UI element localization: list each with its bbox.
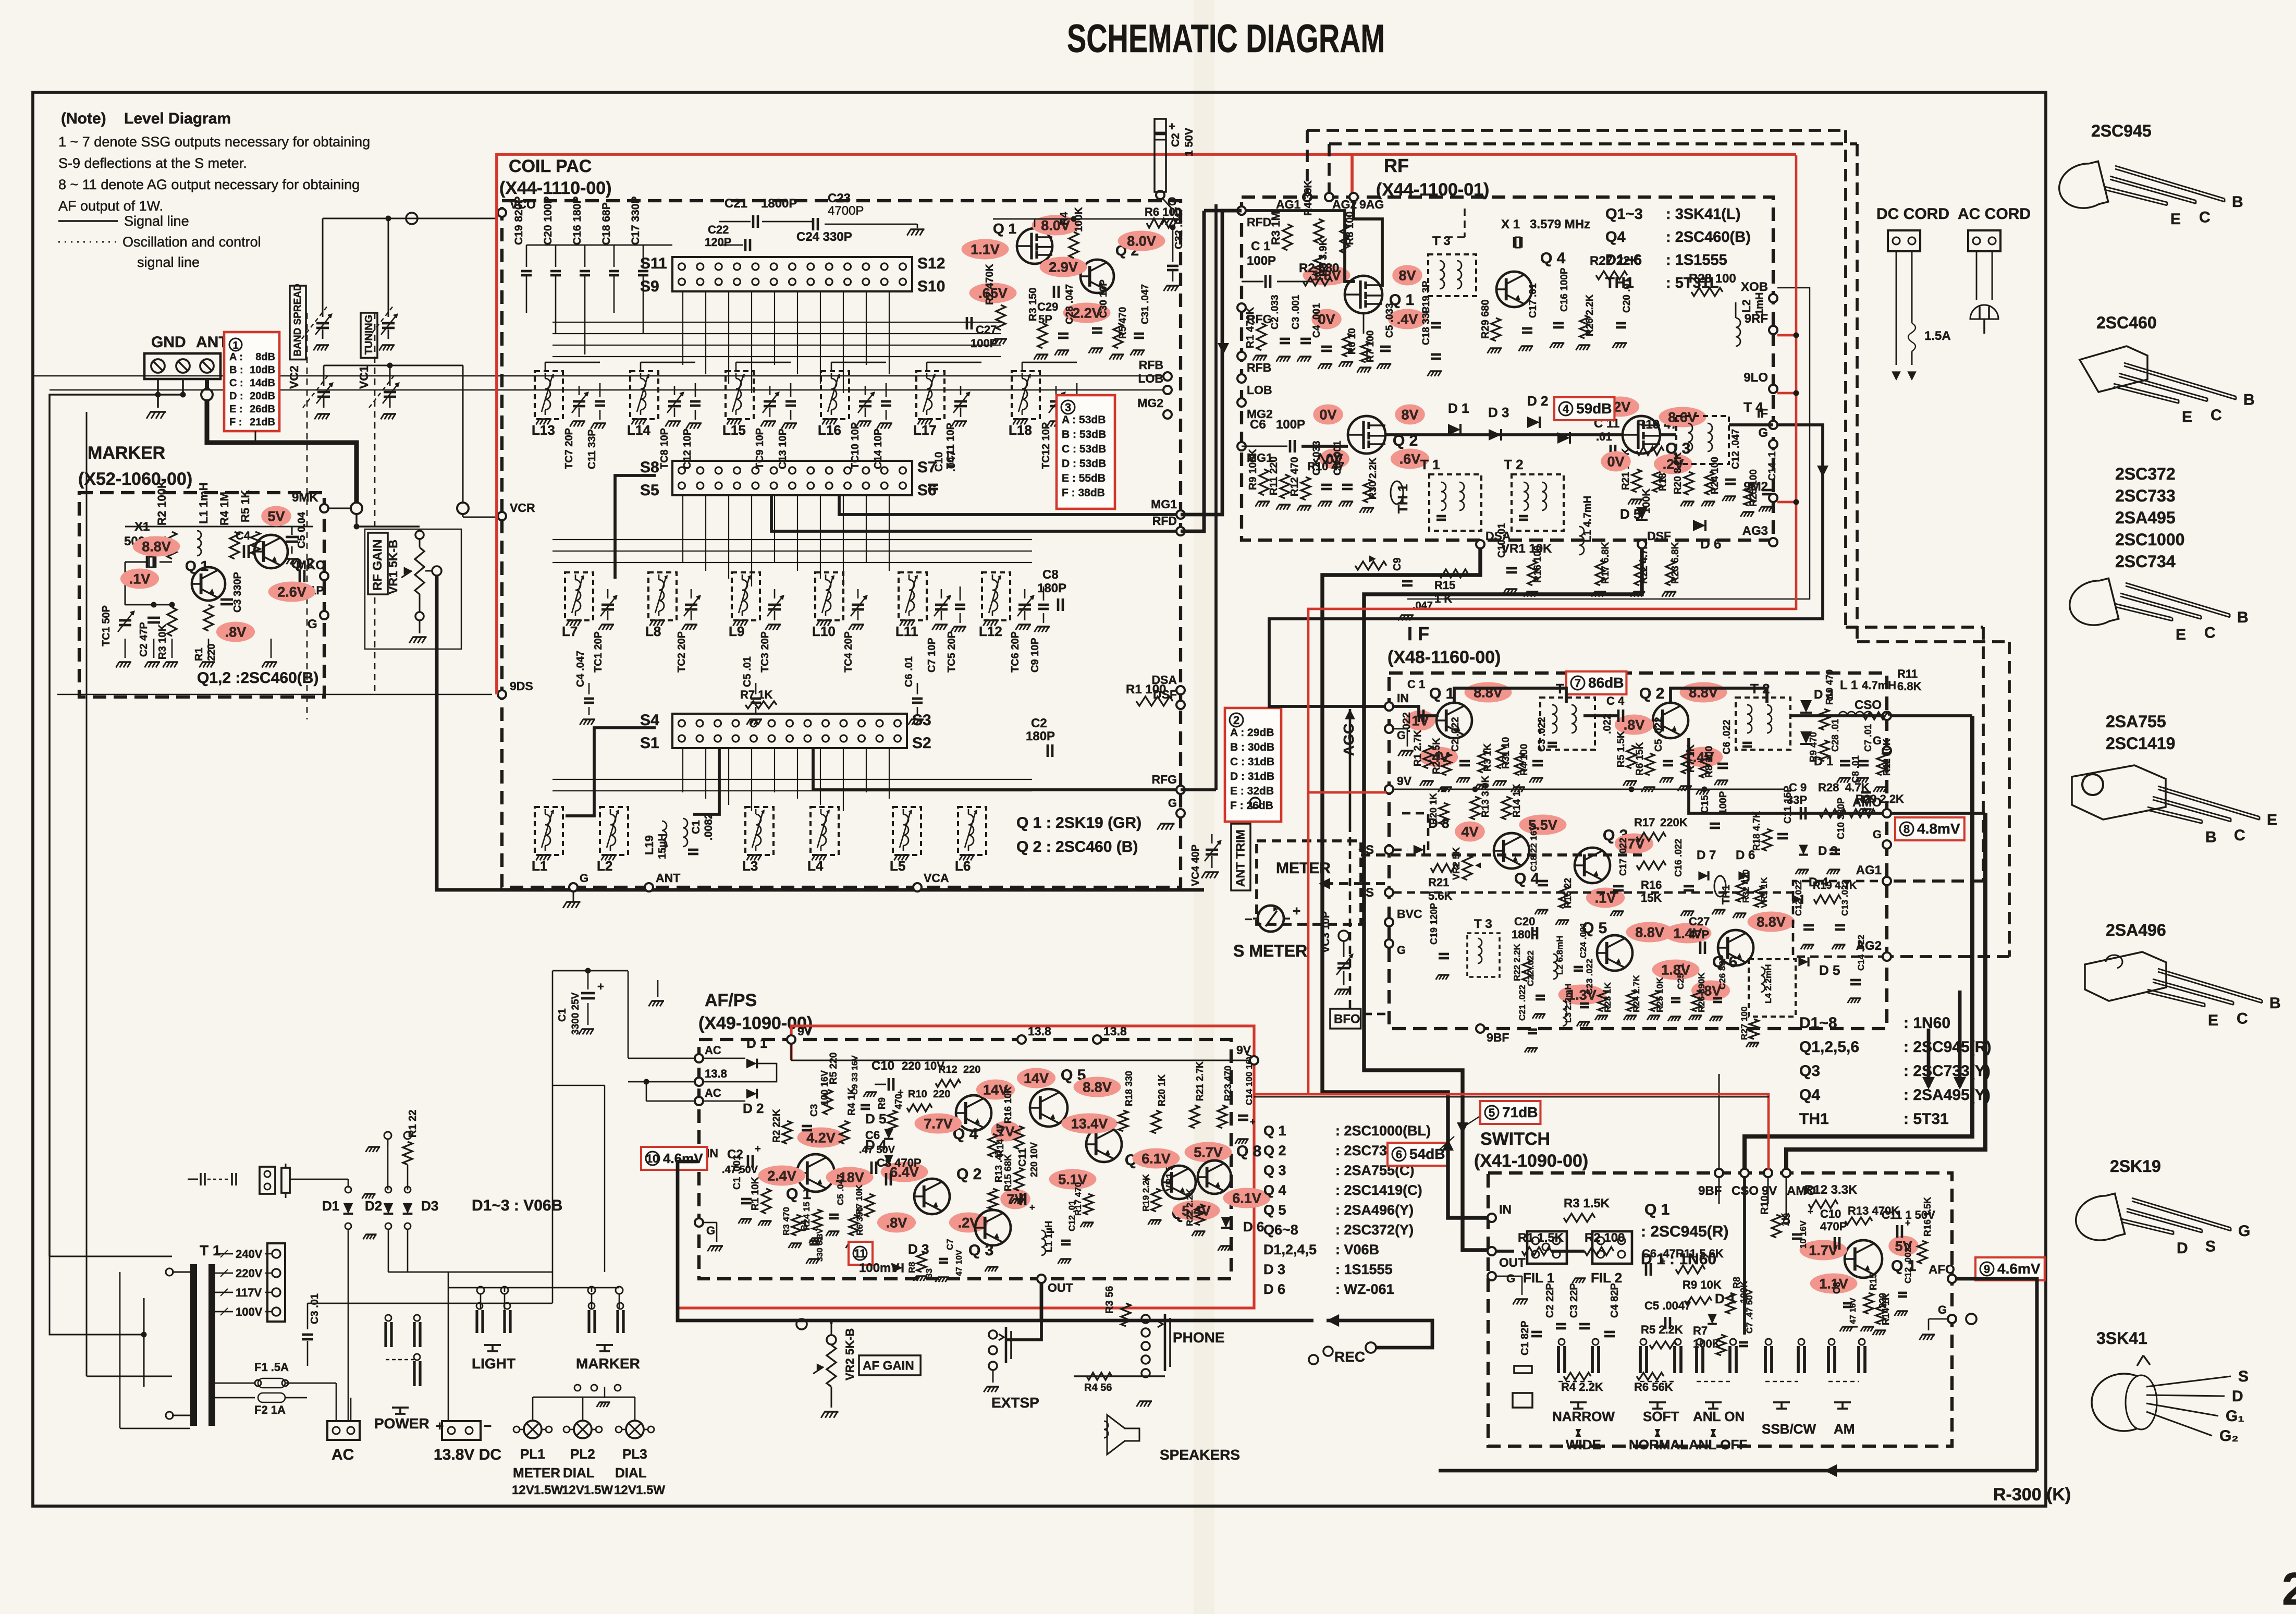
svg-text:.0082: .0082 bbox=[703, 813, 715, 840]
svg-text:C5 .022: C5 .022 bbox=[1653, 717, 1664, 752]
svg-text:(X48-1160-00): (X48-1160-00) bbox=[1388, 647, 1501, 667]
svg-text:C12 .047: C12 .047 bbox=[1730, 429, 1741, 469]
svg-text:S METER: S METER bbox=[1233, 942, 1307, 960]
svg-text:.8V: .8V bbox=[225, 625, 247, 640]
svg-text:10 16V: 10 16V bbox=[1798, 1220, 1808, 1249]
svg-text:C: C bbox=[2211, 407, 2222, 424]
svg-text:L1: L1 bbox=[532, 858, 547, 874]
svg-text:LOB: LOB bbox=[1247, 383, 1272, 397]
svg-text:C24 .001: C24 .001 bbox=[1578, 922, 1588, 958]
svg-text:G: G bbox=[580, 872, 588, 885]
svg-text:R17 6.8K: R17 6.8K bbox=[1600, 542, 1611, 584]
svg-text:R10: R10 bbox=[1759, 1195, 1771, 1215]
svg-text:3: 3 bbox=[1065, 401, 1071, 414]
svg-text:1800P: 1800P bbox=[761, 197, 797, 211]
svg-text:59dB: 59dB bbox=[1576, 400, 1612, 417]
svg-text:C26 33P: C26 33P bbox=[1717, 955, 1727, 989]
svg-text:R2 100K: R2 100K bbox=[155, 480, 168, 525]
svg-text:R10: R10 bbox=[908, 1089, 927, 1100]
svg-text:9BF: 9BF bbox=[1487, 1031, 1509, 1044]
svg-text:1 ~ 7 denote SSG outputs neces: 1 ~ 7 denote SSG outputs necessary for o… bbox=[58, 134, 370, 150]
svg-text:5.7V: 5.7V bbox=[1194, 1145, 1223, 1160]
svg-text:R29 2.2K: R29 2.2K bbox=[1856, 792, 1904, 805]
svg-text:100P: 100P bbox=[1718, 791, 1729, 814]
svg-text:C1 .001: C1 .001 bbox=[732, 1155, 743, 1190]
svg-text:R3 150: R3 150 bbox=[1027, 288, 1039, 322]
svg-text:+: + bbox=[1808, 1206, 1813, 1217]
svg-text:C28 .047: C28 .047 bbox=[1064, 284, 1075, 324]
svg-text:R28 100: R28 100 bbox=[1689, 272, 1736, 286]
svg-text:L4: L4 bbox=[807, 858, 824, 874]
svg-text:S10: S10 bbox=[917, 278, 945, 295]
svg-text:E: E bbox=[2208, 1012, 2218, 1029]
svg-text:BAND SPREAD: BAND SPREAD bbox=[292, 284, 303, 356]
svg-text:G: G bbox=[1873, 734, 1882, 747]
svg-text:C10: C10 bbox=[933, 451, 945, 472]
svg-text:MARKER: MARKER bbox=[88, 443, 165, 463]
svg-text:(X49-1090-00): (X49-1090-00) bbox=[698, 1013, 813, 1033]
svg-text:8V: 8V bbox=[1401, 407, 1418, 423]
svg-text:L17: L17 bbox=[913, 422, 937, 438]
svg-text:G: G bbox=[1168, 797, 1177, 810]
svg-text:AG3: AG3 bbox=[1742, 524, 1768, 538]
svg-text:C4: C4 bbox=[236, 529, 251, 542]
svg-text:R28: R28 bbox=[1818, 781, 1839, 794]
svg-text:3SK41: 3SK41 bbox=[2096, 1329, 2147, 1348]
svg-text:C4 82P: C4 82P bbox=[1609, 1283, 1620, 1318]
svg-text:X 1: X 1 bbox=[1501, 217, 1520, 231]
svg-text:C5 .047: C5 .047 bbox=[836, 1174, 845, 1205]
svg-text:9AG: 9AG bbox=[1359, 198, 1384, 211]
svg-text:4.8mV: 4.8mV bbox=[1917, 821, 1960, 837]
svg-text:TC9 10P: TC9 10P bbox=[754, 428, 766, 469]
svg-text:TC12 10P: TC12 10P bbox=[1040, 422, 1052, 469]
svg-text:F2 1A: F2 1A bbox=[254, 1403, 286, 1416]
svg-text:0V: 0V bbox=[1319, 407, 1336, 423]
svg-text:7.7V: 7.7V bbox=[924, 1116, 953, 1132]
svg-text:TUNING: TUNING bbox=[363, 315, 375, 355]
svg-text:B: B bbox=[2243, 392, 2255, 409]
svg-text:1.7V: 1.7V bbox=[1809, 1243, 1838, 1258]
svg-text:R5 3.9K: R5 3.9K bbox=[1318, 238, 1329, 276]
svg-text:R27 22K: R27 22K bbox=[1590, 254, 1639, 268]
svg-text:L2: L2 bbox=[1740, 299, 1753, 313]
svg-text:9V: 9V bbox=[1236, 1043, 1251, 1057]
svg-text:R3 56: R3 56 bbox=[1104, 1286, 1115, 1314]
svg-text:C13 10P: C13 10P bbox=[777, 429, 789, 469]
svg-text:C9: C9 bbox=[1392, 557, 1403, 571]
svg-text:R30 2.2K: R30 2.2K bbox=[1368, 457, 1379, 499]
svg-text:R5 470: R5 470 bbox=[1118, 307, 1128, 339]
svg-text:S4: S4 bbox=[640, 712, 659, 729]
svg-text:Q3: Q3 bbox=[1799, 1062, 1820, 1080]
svg-text:RFB: RFB bbox=[1139, 358, 1163, 372]
svg-text:C3: C3 bbox=[809, 1104, 820, 1117]
svg-text:C7 10P: C7 10P bbox=[926, 638, 938, 672]
svg-text:VCR: VCR bbox=[510, 501, 535, 515]
svg-text:L3: L3 bbox=[742, 858, 758, 874]
svg-text:13.8V DC: 13.8V DC bbox=[434, 1446, 501, 1463]
svg-text:10: 10 bbox=[646, 1152, 659, 1165]
svg-text:I F: I F bbox=[1407, 623, 1429, 644]
svg-text:R9 470: R9 470 bbox=[1808, 732, 1819, 762]
svg-text:C23: C23 bbox=[828, 191, 851, 205]
svg-text:C19 120P: C19 120P bbox=[1429, 903, 1439, 945]
svg-text:7: 7 bbox=[1575, 677, 1581, 690]
svg-text:R3 470: R3 470 bbox=[781, 1207, 791, 1236]
svg-text:1.1V: 1.1V bbox=[971, 242, 1000, 258]
svg-text:54dB: 54dB bbox=[1409, 1146, 1445, 1162]
svg-text:C: C bbox=[2234, 827, 2245, 844]
svg-text:G: G bbox=[1506, 1272, 1515, 1285]
svg-text:S: S bbox=[2205, 1238, 2216, 1255]
svg-text:2SC734: 2SC734 bbox=[2115, 552, 2176, 571]
svg-text:2SC1000: 2SC1000 bbox=[2115, 530, 2184, 549]
svg-text:TH1: TH1 bbox=[1799, 1110, 1829, 1128]
svg-text:AFO: AFO bbox=[1929, 1263, 1955, 1277]
svg-text:R22 2.2K: R22 2.2K bbox=[1512, 943, 1522, 981]
svg-text:R12 3.3K: R12 3.3K bbox=[1804, 1183, 1858, 1197]
svg-text:DSF: DSF bbox=[1647, 529, 1671, 543]
svg-text:13.4V: 13.4V bbox=[1071, 1116, 1108, 1132]
svg-text:.8V: .8V bbox=[1624, 717, 1645, 733]
svg-text:VC4 40P: VC4 40P bbox=[1190, 845, 1201, 886]
svg-text:signal line: signal line bbox=[137, 254, 200, 270]
svg-text:R20 8.2K: R20 8.2K bbox=[1673, 452, 1684, 494]
svg-text:R15: R15 bbox=[1868, 1273, 1878, 1290]
svg-text:C 4: C 4 bbox=[1606, 694, 1625, 707]
svg-text:Q 2: Q 2 bbox=[1263, 1143, 1286, 1158]
svg-text:R18 4.7K: R18 4.7K bbox=[1751, 811, 1762, 851]
svg-text:F : 38dB: F : 38dB bbox=[1062, 487, 1105, 499]
svg-text:12V: 12V bbox=[614, 1483, 636, 1497]
svg-text:C8: C8 bbox=[1832, 1282, 1842, 1294]
svg-text:L2 6.8mH: L2 6.8mH bbox=[1555, 935, 1565, 975]
svg-text:TH 1: TH 1 bbox=[1395, 484, 1410, 513]
svg-text:R7 1K: R7 1K bbox=[740, 688, 772, 701]
svg-text:: WZ-061: : WZ-061 bbox=[1335, 1281, 1394, 1297]
svg-text:R27 100: R27 100 bbox=[1739, 1007, 1749, 1040]
svg-text:T 2: T 2 bbox=[1504, 457, 1524, 472]
svg-text:G: G bbox=[308, 617, 317, 631]
svg-text:R13 3.9K: R13 3.9K bbox=[1480, 775, 1491, 817]
svg-text:C4 .001: C4 .001 bbox=[1311, 303, 1322, 338]
svg-text:5V: 5V bbox=[267, 509, 285, 524]
svg-text:R7: R7 bbox=[1693, 1324, 1708, 1337]
svg-text:TC6 20P: TC6 20P bbox=[1010, 631, 1021, 672]
svg-text:C6: C6 bbox=[1250, 418, 1266, 432]
svg-text:C3 22P: C3 22P bbox=[1568, 1283, 1580, 1318]
svg-text:9MK: 9MK bbox=[292, 491, 318, 505]
svg-text:SOFT: SOFT bbox=[1643, 1409, 1679, 1424]
svg-text:AC: AC bbox=[705, 1086, 721, 1099]
svg-text:C11 33P: C11 33P bbox=[586, 429, 598, 469]
svg-text:R6 15K: R6 15K bbox=[1635, 742, 1646, 776]
svg-text:D 3: D 3 bbox=[1263, 1262, 1285, 1277]
svg-text:METER: METER bbox=[513, 1465, 560, 1481]
svg-text:D 3: D 3 bbox=[1488, 405, 1509, 420]
svg-text:F :: F : bbox=[229, 417, 242, 428]
svg-text:C5 .033: C5 .033 bbox=[1384, 303, 1395, 338]
svg-text:R5 2.2K: R5 2.2K bbox=[1641, 1323, 1683, 1336]
svg-text:2.9V: 2.9V bbox=[1049, 260, 1078, 275]
svg-text:R16: R16 bbox=[1641, 878, 1662, 891]
svg-text:L9: L9 bbox=[729, 623, 744, 639]
svg-text:+: + bbox=[1905, 1218, 1911, 1228]
svg-text:RFG: RFG bbox=[1151, 773, 1177, 786]
svg-text:.1V: .1V bbox=[129, 571, 151, 587]
svg-text:B: B bbox=[2269, 995, 2281, 1012]
svg-text:R15 68K: R15 68K bbox=[1003, 1154, 1013, 1191]
svg-text:SCHEMATIC DIAGRAM: SCHEMATIC DIAGRAM bbox=[1067, 17, 1385, 61]
svg-text:TC1 50P: TC1 50P bbox=[101, 605, 112, 646]
svg-text:R2 22K: R2 22K bbox=[771, 1109, 782, 1143]
svg-text:ANT: ANT bbox=[656, 871, 680, 885]
svg-text:PL3: PL3 bbox=[622, 1446, 647, 1462]
svg-text:IN: IN bbox=[1397, 691, 1409, 705]
svg-text:C5 .01: C5 .01 bbox=[742, 656, 753, 687]
svg-text:R10 470: R10 470 bbox=[1824, 669, 1835, 705]
svg-text:1mH: 1mH bbox=[1754, 292, 1765, 315]
svg-text:R4 1M: R4 1M bbox=[218, 492, 231, 525]
svg-text:470P: 470P bbox=[1820, 1220, 1847, 1233]
svg-text:SWITCH: SWITCH bbox=[1480, 1129, 1550, 1149]
svg-text:1: 1 bbox=[232, 340, 238, 351]
svg-text:Q 1 : 2SK19 (GR): Q 1 : 2SK19 (GR) bbox=[1016, 814, 1141, 832]
svg-text:C8 470P: C8 470P bbox=[877, 1156, 922, 1169]
svg-text:G: G bbox=[1758, 426, 1768, 440]
svg-text:Q 4: Q 4 bbox=[1514, 870, 1540, 887]
svg-text:NORMAL: NORMAL bbox=[1629, 1437, 1688, 1452]
svg-text:4: 4 bbox=[1563, 402, 1569, 415]
svg-text:8.8V: 8.8V bbox=[1635, 925, 1664, 940]
svg-text:RF: RF bbox=[1384, 155, 1409, 176]
svg-text:C1: C1 bbox=[690, 820, 702, 834]
svg-text:240V: 240V bbox=[236, 1248, 263, 1261]
svg-text:C6 .47: C6 .47 bbox=[1642, 1247, 1676, 1260]
svg-text:R24 100: R24 100 bbox=[1710, 457, 1721, 494]
svg-text:C7: C7 bbox=[945, 1239, 955, 1250]
svg-text:B : 53dB: B : 53dB bbox=[1062, 429, 1106, 441]
svg-text:.047: .047 bbox=[946, 450, 957, 472]
svg-text:MG1: MG1 bbox=[1151, 497, 1177, 511]
svg-text:MG2: MG2 bbox=[1137, 396, 1163, 410]
svg-text:C5 .0047: C5 .0047 bbox=[1644, 1299, 1691, 1312]
svg-text:R26 390K: R26 390K bbox=[1697, 972, 1706, 1012]
svg-text:8.8V: 8.8V bbox=[1083, 1080, 1112, 1095]
svg-text:L10: L10 bbox=[812, 623, 836, 639]
svg-text:R29 680: R29 680 bbox=[1480, 299, 1491, 339]
svg-text:C5 0.04: C5 0.04 bbox=[296, 511, 308, 548]
svg-text:8dB: 8dB bbox=[255, 351, 275, 363]
svg-text:C1 82P: C1 82P bbox=[1519, 1320, 1531, 1355]
svg-text:D :: D : bbox=[229, 390, 243, 402]
svg-text:L18: L18 bbox=[1009, 422, 1032, 438]
svg-text:C18 68P: C18 68P bbox=[600, 202, 612, 245]
svg-text:D1,2,4,5: D1,2,4,5 bbox=[1263, 1242, 1317, 1257]
svg-text:71dB: 71dB bbox=[1502, 1104, 1538, 1120]
svg-text:S2: S2 bbox=[912, 735, 931, 752]
svg-text:C20 .01: C20 .01 bbox=[1622, 278, 1632, 313]
svg-text:C3 .01: C3 .01 bbox=[309, 1293, 321, 1324]
svg-text:2SC1419: 2SC1419 bbox=[2106, 734, 2175, 753]
svg-text:R7 100: R7 100 bbox=[1365, 331, 1376, 362]
svg-text:TH1: TH1 bbox=[1721, 885, 1732, 904]
svg-text:C: C bbox=[2199, 209, 2211, 226]
svg-text:1.5W: 1.5W bbox=[584, 1483, 613, 1497]
svg-text:R8: R8 bbox=[907, 1262, 917, 1273]
svg-text:R5 1K: R5 1K bbox=[239, 490, 252, 522]
svg-text:S5: S5 bbox=[640, 482, 659, 499]
svg-text:PHONE: PHONE bbox=[1173, 1329, 1225, 1346]
svg-text:8.6V: 8.6V bbox=[1668, 410, 1697, 425]
svg-text:L4 2.2mH: L4 2.2mH bbox=[1763, 964, 1773, 1004]
svg-text:+: + bbox=[436, 1418, 444, 1434]
svg-text:.6V: .6V bbox=[1399, 451, 1421, 467]
svg-text:D 2: D 2 bbox=[743, 1101, 764, 1116]
svg-text:2: 2 bbox=[1233, 714, 1239, 727]
svg-text:C8 .01: C8 .01 bbox=[1850, 755, 1861, 783]
svg-text:Q 1: Q 1 bbox=[1263, 1123, 1286, 1139]
svg-text:L8: L8 bbox=[645, 623, 661, 639]
svg-text:12V: 12V bbox=[562, 1483, 584, 1497]
svg-text:47P: 47P bbox=[1689, 928, 1709, 941]
svg-text:VC1: VC1 bbox=[357, 365, 371, 389]
svg-text:R6 10: R6 10 bbox=[1347, 328, 1358, 354]
svg-text:E: E bbox=[2176, 626, 2186, 643]
svg-text:120P: 120P bbox=[705, 236, 731, 249]
svg-text:Q 1: Q 1 bbox=[1644, 1201, 1669, 1218]
svg-text:C28 .01: C28 .01 bbox=[1830, 719, 1840, 752]
svg-text:4.7mH: 4.7mH bbox=[1862, 679, 1896, 692]
svg-text:R21 2.7K: R21 2.7K bbox=[1195, 1061, 1205, 1101]
svg-text:D 4: D 4 bbox=[865, 1137, 887, 1153]
svg-text:220V: 220V bbox=[236, 1267, 263, 1280]
svg-text:TC5 20P: TC5 20P bbox=[946, 631, 957, 672]
svg-text:VCA: VCA bbox=[924, 871, 949, 885]
svg-text:C27: C27 bbox=[976, 323, 997, 336]
svg-text:C22 .022: C22 .022 bbox=[1526, 950, 1536, 986]
svg-text:.022: .022 bbox=[1401, 712, 1413, 732]
svg-text:C 9: C 9 bbox=[1789, 781, 1807, 794]
svg-text:LIGHT: LIGHT bbox=[472, 1355, 515, 1372]
svg-text:R6 56K: R6 56K bbox=[1634, 1380, 1673, 1393]
svg-text:RFB: RFB bbox=[1247, 361, 1271, 374]
svg-text:TC1 20P: TC1 20P bbox=[593, 631, 604, 672]
svg-text:LOB: LOB bbox=[1138, 372, 1163, 385]
svg-text:.4V: .4V bbox=[1397, 312, 1418, 327]
svg-text:WIDE: WIDE bbox=[1566, 1437, 1601, 1452]
svg-text:220: 220 bbox=[963, 1064, 980, 1075]
svg-text:L2: L2 bbox=[597, 858, 612, 874]
svg-text:AC: AC bbox=[331, 1446, 354, 1463]
svg-text:C30 10P: C30 10P bbox=[1098, 279, 1109, 318]
svg-text:C3 .022: C3 .022 bbox=[1537, 717, 1548, 752]
svg-text:R25 100: R25 100 bbox=[1748, 469, 1759, 507]
svg-text:S1: S1 bbox=[640, 735, 659, 752]
svg-text:C11: C11 bbox=[1017, 1148, 1028, 1167]
svg-text:L1 1μH: L1 1μH bbox=[1043, 1221, 1054, 1252]
svg-text:R11 5.6K: R11 5.6K bbox=[1676, 1247, 1724, 1260]
svg-text:C : 31dB: C : 31dB bbox=[1230, 756, 1274, 768]
svg-text:X1: X1 bbox=[134, 520, 150, 534]
svg-text:VR2 5K-B: VR2 5K-B bbox=[843, 1328, 856, 1380]
svg-text:R4 56: R4 56 bbox=[1084, 1382, 1112, 1393]
svg-text:R4 100: R4 100 bbox=[1519, 744, 1530, 776]
svg-text:C3 330P: C3 330P bbox=[232, 572, 243, 613]
svg-text:8.8V: 8.8V bbox=[1757, 914, 1786, 930]
svg-text:AF/PS: AF/PS bbox=[705, 991, 757, 1010]
svg-text:+: + bbox=[755, 1143, 761, 1155]
svg-text:R4 2.2K: R4 2.2K bbox=[1561, 1380, 1603, 1393]
svg-text:G: G bbox=[1938, 1303, 1947, 1316]
svg-text:: 2SC1419(C): : 2SC1419(C) bbox=[1335, 1182, 1422, 1198]
svg-text:D 5: D 5 bbox=[865, 1111, 886, 1127]
svg-text:G: G bbox=[706, 1224, 715, 1237]
svg-text:A :: A : bbox=[229, 351, 243, 363]
svg-text:EXTSP: EXTSP bbox=[991, 1395, 1039, 1411]
svg-text:(X52-1060-00): (X52-1060-00) bbox=[78, 469, 192, 489]
svg-text:L1 1mH: L1 1mH bbox=[197, 483, 210, 524]
svg-text:SPEAKERS: SPEAKERS bbox=[1160, 1447, 1240, 1463]
svg-text:C24 330P: C24 330P bbox=[796, 230, 852, 244]
svg-text:ANL ON: ANL ON bbox=[1693, 1409, 1745, 1424]
svg-text:6.8K: 6.8K bbox=[1897, 680, 1922, 693]
svg-text:C18 22 16V: C18 22 16V bbox=[1529, 825, 1539, 872]
svg-text:R31 10: R31 10 bbox=[1501, 737, 1512, 769]
svg-text:E : 32dB: E : 32dB bbox=[1230, 785, 1274, 797]
svg-text:C13 .022: C13 .022 bbox=[1840, 880, 1850, 916]
svg-text:S3: S3 bbox=[912, 712, 931, 729]
svg-text:C4: C4 bbox=[799, 1220, 809, 1231]
svg-text:D 5: D 5 bbox=[1819, 962, 1840, 978]
svg-text:117V: 117V bbox=[236, 1286, 262, 1299]
svg-text:4.6mV: 4.6mV bbox=[1997, 1261, 2041, 1277]
svg-text:R3 1M: R3 1M bbox=[1269, 211, 1282, 245]
svg-text:6: 6 bbox=[1396, 1148, 1402, 1161]
svg-text:C14 .022: C14 .022 bbox=[1856, 935, 1866, 971]
svg-text:4.6mV: 4.6mV bbox=[663, 1151, 703, 1166]
svg-text:1.5W: 1.5W bbox=[534, 1483, 563, 1497]
svg-text:2: 2 bbox=[2282, 1563, 2296, 1614]
svg-text:R23 470: R23 470 bbox=[1223, 1066, 1233, 1101]
svg-text:26dB: 26dB bbox=[250, 404, 275, 415]
svg-text:C4 .047: C4 .047 bbox=[575, 651, 586, 687]
svg-text:R24 2.7K: R24 2.7K bbox=[1631, 974, 1641, 1012]
svg-text:Q 3: Q 3 bbox=[1263, 1163, 1286, 1178]
svg-text:: 2SC460(B): : 2SC460(B) bbox=[1666, 229, 1751, 246]
svg-text:+: + bbox=[1029, 1202, 1035, 1213]
svg-text:220 10V: 220 10V bbox=[1029, 1142, 1039, 1177]
svg-text:C16 180P: C16 180P bbox=[571, 197, 583, 245]
svg-text:R1 470K: R1 470K bbox=[1245, 307, 1256, 348]
svg-text:C17 .022: C17 .022 bbox=[1618, 838, 1628, 876]
svg-text:C9 10P: C9 10P bbox=[1029, 638, 1041, 672]
svg-text:+: + bbox=[1169, 120, 1175, 133]
svg-text:OUT: OUT bbox=[1048, 1281, 1073, 1294]
svg-text:VR1 5K-B: VR1 5K-B bbox=[386, 540, 400, 594]
svg-text:0V: 0V bbox=[1607, 454, 1624, 470]
svg-text:Q 4: Q 4 bbox=[1540, 250, 1566, 267]
svg-text:180P: 180P bbox=[1512, 928, 1538, 941]
svg-text:R20 1K: R20 1K bbox=[1428, 793, 1439, 825]
svg-text:AF GAIN: AF GAIN bbox=[863, 1359, 914, 1373]
svg-text:L12: L12 bbox=[979, 623, 1002, 639]
svg-text:86dB: 86dB bbox=[1588, 675, 1624, 691]
svg-text:R21: R21 bbox=[1428, 876, 1449, 889]
svg-text:E: E bbox=[2182, 409, 2192, 426]
svg-text:BFO: BFO bbox=[1334, 1012, 1360, 1026]
